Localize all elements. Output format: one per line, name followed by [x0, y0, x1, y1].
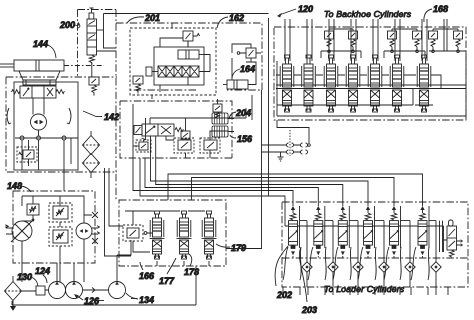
wire: diamond drops — [307, 221, 436, 287]
valve spool 4 backhoe — [346, 55, 361, 112]
label 126 — [74, 294, 104, 306]
check diamond 1 — [302, 262, 312, 272]
cylinder 144 — [0, 60, 104, 71]
svg-text:177: 177 — [159, 276, 175, 286]
valve: compensator column 5 — [390, 206, 401, 258]
valve: hatched directional spool in 162 — [146, 66, 199, 77]
label 148 — [7, 181, 31, 192]
node: backhoe valve bank dash-dot box 120 — [274, 27, 466, 120]
svg-text:162: 162 — [229, 13, 244, 23]
wire: backhoe bank feed jogs — [276, 75, 441, 88]
svg-text:168: 168 — [433, 4, 448, 14]
check diamond 3 — [353, 262, 363, 272]
wire: vertical dash-dot trunk at x=117 — [78, 10, 117, 201]
pump 134 circle — [109, 282, 126, 299]
valve: solenoid control valve B in 148 — [49, 227, 72, 246]
svg-text:120: 120 — [298, 4, 313, 14]
relief valve RV4 — [413, 31, 422, 53]
motor: charge pump circle right — [76, 223, 99, 239]
valve: inlet valve in bottom box — [123, 225, 147, 241]
svg-text:204: 204 — [235, 108, 251, 118]
wire: 162 internal connections — [152, 23, 210, 99]
wire: 148 internal connections — [22, 196, 92, 282]
node: dash-dot box 148 — [13, 191, 95, 263]
label 144 — [33, 39, 56, 58]
svg-text:To Backhoe Cylinders: To Backhoe Cylinders — [324, 9, 412, 19]
valve: solenoid reducing valve left-bottom — [133, 138, 151, 152]
wire: left supply verticals down — [105, 168, 132, 256]
valve: solenoid control valve A in 148 — [49, 203, 72, 222]
valve: compensator column 4 — [364, 206, 375, 258]
label 134 — [126, 293, 154, 305]
check diamond 4 — [379, 262, 389, 272]
label 203 — [299, 247, 317, 315]
valve spool A bottom box — [150, 211, 165, 259]
wire: trunk at 252 — [251, 95, 253, 120]
node: left system dash-dot box (142) — [6, 77, 117, 172]
node: mid pilot box dash-dot (142 system) — [120, 101, 232, 158]
svg-text:203: 203 — [301, 305, 317, 315]
wire: 164 connections — [232, 44, 261, 85]
wire: loader bank internal dash-dot rail — [282, 257, 468, 259]
valve spool 5 backhoe — [368, 55, 383, 112]
valve: pressure regulator in left box — [17, 140, 37, 166]
relief valve RV3 — [388, 31, 397, 53]
relief valve RV2 — [349, 31, 358, 53]
svg-text:144: 144 — [33, 39, 48, 49]
valve: solenoid directional valve 204 — [134, 124, 183, 136]
valve: check valve above 164 — [237, 48, 261, 58]
svg-text:202: 202 — [276, 290, 292, 300]
wire: loader bank lower stubs — [283, 287, 448, 295]
node: cylinder mounting bracket — [19, 71, 60, 85]
valve: check valve mid small — [181, 131, 190, 139]
label 204 — [229, 108, 251, 119]
pump 124 circle — [49, 282, 66, 299]
valve: compensator column 1 — [289, 206, 300, 258]
svg-text:148: 148 — [7, 181, 22, 191]
relief valve RV5 — [429, 31, 438, 53]
check diamond 5 — [405, 262, 415, 272]
label 168 — [424, 4, 448, 22]
label 130 — [17, 272, 38, 286]
pump: variable displacement pump — [6, 219, 34, 242]
valve spool 1 backhoe — [280, 55, 295, 112]
accumulator/filter stack 156 lower — [212, 126, 228, 137]
label 202 — [275, 246, 292, 300]
svg-text:134: 134 — [139, 295, 154, 305]
cylinder: small actuator in 162 — [178, 50, 204, 59]
coupler: engine coupling box — [36, 286, 45, 295]
filter pair diamonds — [83, 131, 100, 178]
valve spool 3 backhoe — [324, 55, 339, 112]
wire: loader work-port curves — [283, 247, 429, 280]
coupler: diagnostic quick-disconnect — [262, 130, 311, 161]
valve: compensator column 6 — [418, 206, 429, 258]
wire: fan line 2 — [192, 178, 395, 207]
wire: backhoe bank tank rail — [277, 52, 466, 143]
svg-text:126: 126 — [84, 296, 100, 306]
curved flow arrow right — [67, 108, 71, 124]
label 162 — [217, 13, 244, 28]
wire: fan line 3 — [151, 158, 369, 206]
label 200 — [59, 20, 80, 30]
valve: loader directional control valve — [12, 80, 65, 98]
valve: solenoid reducing valve center-bottom — [174, 138, 194, 153]
svg-text:164: 164 — [240, 64, 255, 74]
filter: suction strainer diamond — [5, 282, 22, 311]
wire: cylinder lines up from bank — [285, 19, 427, 61]
valve: sequence valve top in 162 — [183, 31, 200, 47]
node: loader valve bank dash-dot box — [282, 202, 468, 287]
label 166 — [139, 262, 155, 281]
node: crossed port mark lower — [92, 238, 98, 244]
wire: mid system connections — [133, 99, 246, 158]
check diamond 2 — [328, 262, 338, 272]
wire: compensator side feeds — [300, 220, 437, 222]
label 201 — [127, 13, 160, 23]
valve spool B bottom box — [177, 211, 192, 259]
svg-text:179: 179 — [231, 243, 246, 253]
valve spool 7 backhoe — [417, 55, 432, 112]
hydraulic motor (steering) — [31, 98, 47, 130]
node: dashed box 162 — [130, 28, 216, 95]
valve spool C bottom box — [202, 211, 217, 259]
valve: solenoid reducing valve right-bottom — [200, 138, 220, 153]
node: solid box around loader control valve — [14, 82, 78, 170]
label 177 — [159, 258, 176, 286]
node: junction rail with ports — [15, 130, 78, 191]
valve: compensator column 2 — [314, 206, 325, 258]
label 156 — [230, 134, 253, 144]
valve: relief valve left of stack 200 — [89, 77, 99, 96]
wire: fan line 4 — [156, 158, 343, 206]
wire: relief pair links — [321, 19, 466, 58]
valve spool 2 backhoe — [301, 55, 316, 112]
cylinder 164 actuator — [223, 80, 248, 89]
wire: outer top border of center assembly — [104, 13, 269, 15]
valve U200 pilot stack — [87, 8, 116, 77]
wire: fan line 5 — [145, 158, 318, 206]
label 178 — [184, 254, 199, 277]
node: bottom middle dash-dot box 166 — [119, 200, 226, 266]
svg-text:124: 124 — [35, 266, 50, 276]
label 120 — [277, 4, 313, 18]
svg-text:156: 156 — [237, 134, 253, 144]
valve: unload valve right end — [440, 220, 463, 257]
label 124 — [35, 266, 50, 283]
svg-text:130: 130 — [17, 272, 32, 282]
label 142 — [83, 111, 119, 122]
svg-text:To Loader Cylinders: To Loader Cylinders — [324, 284, 405, 294]
svg-text:142: 142 — [104, 112, 119, 122]
node: crossed port mark — [92, 212, 98, 218]
wire: pump drive shaft — [22, 288, 109, 293]
wire: trunk joins — [140, 158, 444, 240]
wire: fan line 1 — [168, 174, 423, 206]
node: inner solid box of 162 — [154, 47, 204, 85]
valve spool 6 backhoe — [390, 55, 405, 112]
check diamond 6 — [431, 262, 441, 272]
wire: supply trunk pair down the middle — [226, 18, 269, 249]
wire: bottom box connections — [125, 211, 209, 266]
wire: pump risers — [57, 263, 74, 282]
svg-text:178: 178 — [184, 267, 199, 277]
label 164 — [232, 64, 255, 78]
valve: compensator column 3 — [338, 206, 349, 258]
valve: solenoid valve top-left in 148 — [27, 204, 39, 215]
valve: relief above accumulators — [213, 104, 222, 118]
label 179 — [216, 243, 246, 253]
relief valve RV6 — [454, 31, 463, 53]
accumulator/filter stack 156 upper — [212, 113, 228, 124]
wire: left vertical of center assembly border — [104, 14, 117, 49]
svg-text:166: 166 — [139, 271, 155, 281]
wire: fan line 6 — [133, 158, 293, 206]
wire: tank return line — [12, 240, 196, 305]
node: pilot supply frame dash-dot box 201 — [116, 23, 262, 90]
wire: backhoe bank mid rail — [276, 85, 466, 89]
curved flow arrow left — [7, 108, 11, 124]
svg-text:200: 200 — [59, 20, 75, 30]
pump 126 circle — [66, 282, 83, 299]
relief valve RV1 — [325, 31, 334, 53]
svg-text:201: 201 — [144, 13, 160, 23]
valve: reducing valve lower-left in 162 — [133, 76, 143, 94]
